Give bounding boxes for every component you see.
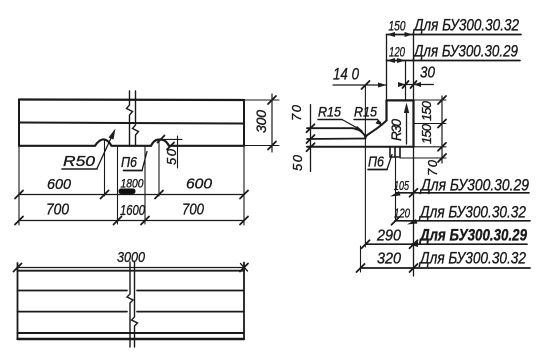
plan break line left	[127, 262, 133, 347]
row F tick left	[357, 264, 365, 272]
ext vertical x405.5	[405, 61, 407, 101]
svg-text:3000: 3000	[117, 249, 146, 266]
300 dim line	[271, 94, 273, 152]
300 tick bottom	[268, 142, 276, 150]
30 tick right	[411, 81, 417, 88]
svg-text:1800: 1800	[121, 177, 144, 191]
plan left edge	[17, 263, 19, 339]
svg-text:Для БУ300.30.29: Для БУ300.30.29	[418, 227, 527, 245]
row2 tick x145	[141, 217, 149, 225]
50 notch tick top	[158, 136, 165, 143]
right ext y100	[414, 99, 447, 101]
ext vertical x365.4 (V bottom)	[364, 85, 366, 247]
beam right edge extension down	[243, 146, 245, 226]
row C line (105 dim + label underline)	[396, 192, 529, 194]
ext line from left bump crest	[104, 140, 106, 196]
right ext y158	[400, 157, 446, 159]
R50 leader	[97, 132, 114, 169]
plan right edge	[243, 263, 245, 340]
R30 arrowhead up	[404, 103, 409, 114]
50 notch dim line	[177, 136, 179, 168]
svg-text:105: 105	[394, 178, 410, 193]
beam left edge extension down	[18, 146, 20, 225]
row1 tick x159	[155, 191, 163, 199]
svg-text:290: 290	[376, 228, 401, 245]
row2 tick x244	[240, 217, 248, 225]
left tick y128	[307, 124, 315, 132]
П6 leader right	[387, 155, 392, 170]
svg-text:Для БУ300.30.32: Для БУ300.30.32	[418, 204, 526, 222]
row2 tick x117	[114, 217, 122, 225]
stem right face extension up	[413, 35, 415, 101]
right dim vertical	[441, 96, 443, 163]
right ext y147	[414, 146, 447, 148]
3000 tick right	[240, 264, 248, 272]
right tick y123.5	[438, 120, 446, 128]
120 arrow right	[397, 58, 406, 63]
svg-text:120: 120	[389, 45, 405, 60]
svg-text:150: 150	[389, 19, 406, 34]
row E arrow blob	[409, 242, 419, 248]
break line right (with zigzag)	[133, 91, 139, 146]
beam bottom edge with R50 bumps	[19, 139, 244, 146]
svg-text:Для БУ300.30.29: Для БУ300.30.29	[412, 43, 518, 61]
stem left face	[385, 100, 387, 120]
label row B line (120 dim + underline)	[387, 60, 521, 62]
row F line (320 dim + label underline)	[361, 267, 531, 269]
300 ext top	[244, 99, 279, 101]
svg-text:70: 70	[425, 159, 440, 176]
svg-text:30: 30	[420, 65, 435, 82]
stem right face	[412, 100, 414, 146]
svg-text:320: 320	[377, 251, 401, 268]
svg-text:Для БУ300.30.29: Для БУ300.30.29	[419, 177, 529, 195]
plan break line right	[132, 262, 138, 347]
beam left edge	[18, 100, 20, 146]
R15 underline 2	[354, 119, 378, 121]
R15 leader 1 arrowhead	[355, 126, 364, 132]
30 arrow right (outside)	[414, 82, 422, 87]
left slope of channel (R15)	[352, 128, 365, 138]
300 tick top	[268, 96, 276, 104]
svg-text:150: 150	[419, 100, 434, 121]
row C arrow left	[390, 191, 401, 197]
svg-text:150: 150	[419, 123, 434, 144]
ext line 1800/1600 left	[117, 147, 119, 224]
svg-text:П6: П6	[368, 154, 385, 171]
30 tick left	[403, 81, 409, 88]
R30 arrow shaft	[406, 107, 408, 144]
surface line 2	[307, 138, 365, 141]
left tick y139	[307, 135, 315, 143]
R15 underline 1	[318, 119, 342, 121]
50 notch tick bottom	[167, 143, 174, 150]
140 tick x365	[362, 81, 370, 89]
120 arrow left	[387, 58, 396, 63]
R50 underline	[62, 168, 97, 170]
base top line	[307, 146, 414, 148]
3000 dim line	[18, 267, 245, 269]
right tick y147	[438, 143, 446, 151]
svg-text:300: 300	[253, 110, 269, 133]
R15 leader 2	[378, 120, 381, 123]
chain vertical x413.5	[413, 147, 415, 276]
svg-text:600: 600	[186, 176, 213, 193]
row D arrow at chain	[407, 219, 418, 225]
50 notch ext line	[164, 138, 182, 140]
140 arrow right	[378, 83, 387, 88]
svg-text:50: 50	[290, 154, 305, 171]
row C tick x413.5	[410, 189, 418, 197]
ext line from right bump crest	[158, 140, 160, 196]
ext line 1800/1600 right	[144, 147, 146, 224]
svg-text:700: 700	[182, 202, 204, 219]
plan bottom edge	[18, 338, 245, 340]
beam top edge	[19, 98, 244, 101]
svg-text:1600: 1600	[120, 203, 145, 219]
plan inner line 2	[18, 311, 245, 313]
surface line 1	[307, 127, 352, 129]
break line left (with zigzag)	[127, 91, 133, 146]
dim row2 line	[19, 220, 244, 222]
row2 tick x19	[15, 217, 23, 225]
plan inner line 1	[18, 290, 245, 292]
stem left face extension up	[386, 35, 388, 101]
svg-text:R50: R50	[63, 154, 95, 170]
row E line (290 dim + label underline)	[365, 243, 527, 245]
svg-text:50: 50	[164, 148, 179, 165]
svg-text:700: 700	[46, 202, 69, 219]
svg-text:П6: П6	[121, 154, 138, 171]
row1 tick x19	[15, 191, 23, 199]
30 arrow left (outside)	[398, 82, 406, 87]
140 dim line	[333, 84, 387, 86]
svg-text:70: 70	[289, 104, 304, 121]
left tick y147.5	[307, 143, 315, 151]
svg-text:600: 600	[47, 176, 72, 193]
П6 leader	[142, 152, 147, 171]
plan top edge	[18, 270, 245, 272]
right tick y100	[438, 96, 446, 104]
row1 tick x244	[240, 191, 248, 199]
row D tick x395	[392, 217, 400, 225]
3000 tick left	[14, 264, 22, 272]
150 arrow left	[387, 32, 396, 37]
row D line (120 dim + label underline)	[395, 220, 530, 222]
30 dim line	[401, 84, 434, 86]
П6 underline right	[368, 169, 387, 171]
svg-text:Для БУ300.30.32: Для БУ300.30.32	[412, 17, 519, 35]
ext vertical x360.5	[360, 246, 362, 272]
right tick y158	[438, 154, 446, 162]
row E tick left	[362, 240, 370, 248]
svg-text:Для БУ300.30.32: Для БУ300.30.32	[418, 250, 526, 268]
R15 leader 2 arrowhead	[376, 120, 384, 126]
П6 pocket box	[390, 147, 400, 157]
plan inner line 3	[18, 332, 245, 334]
row1 tick x104	[101, 191, 109, 199]
П6 underline	[124, 170, 143, 172]
300 ext bottom	[244, 145, 279, 147]
svg-text:R15: R15	[318, 105, 341, 120]
П6 pocket inner mark	[394, 148, 396, 157]
beam mid line	[19, 123, 244, 124]
150 arrow right	[405, 32, 414, 37]
svg-text:14 0: 14 0	[333, 66, 360, 84]
left dim vertical	[310, 105, 312, 172]
stem top edge	[387, 99, 414, 101]
svg-text:R30: R30	[389, 119, 404, 141]
ext vertical x395.5 (pocket)	[395, 157, 397, 221]
label row A line (150 dim + underline)	[387, 34, 522, 36]
R50 leader arrowhead	[109, 129, 116, 140]
R15 leader 1	[342, 120, 360, 130]
row E tick x413.5	[410, 240, 418, 248]
right ext y123.5	[414, 123, 447, 125]
dim row1 line	[19, 194, 244, 196]
row F tick x413.5	[410, 264, 418, 272]
1800 arrows blob	[119, 189, 136, 195]
svg-text:120: 120	[394, 206, 411, 221]
slope from stem to V bottom (R30/R15 fillets)	[365, 121, 386, 139]
3000 end cross right	[241, 264, 248, 272]
beam right edge	[243, 100, 245, 146]
